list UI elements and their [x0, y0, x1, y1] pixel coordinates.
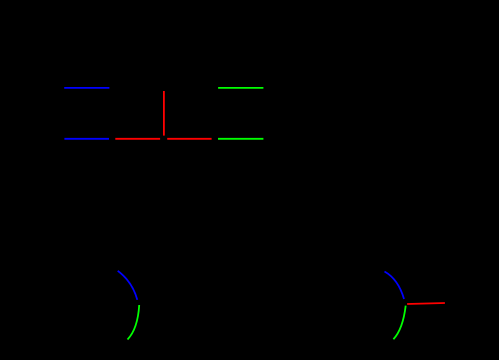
- wire green lower-right horizontal (node I to node J): [218, 138, 263, 140]
- wire blue arc lower-left (node K to junction L): [118, 271, 138, 300]
- wire red vertical (node C to node H): [163, 91, 165, 136]
- wire red horizontal left (node G to node H): [115, 138, 160, 140]
- wire green arc lower-left (junction L to node M): [128, 305, 140, 340]
- wire blue arc lower-right (node N to junction P): [385, 272, 405, 300]
- wire blue top-left horizontal (node A to node B): [64, 87, 109, 89]
- wire blue lower-left horizontal (node F to node G): [64, 138, 109, 140]
- wire green arc lower-right (junction P to node R): [393, 306, 405, 340]
- wire red horizontal lower-right (junction P to node Q): [407, 303, 445, 304]
- wire red horizontal right (node H to node I): [167, 138, 211, 140]
- wire green top-right horizontal (node D to node E): [218, 87, 263, 89]
